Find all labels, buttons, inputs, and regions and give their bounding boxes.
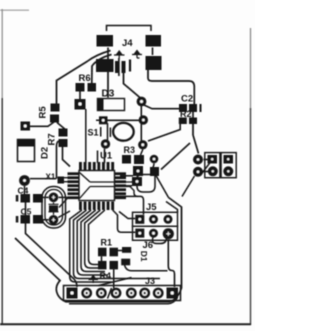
connector J3 pad 1 — [67, 288, 78, 299]
connector J2 outline A — [205, 153, 220, 178]
wire U1 left pin stubs — [64, 178, 68, 182]
via V2 — [141, 120, 143, 122]
capacitor C1 pad 1 — [98, 261, 107, 270]
capacitor C1 pad 2 — [110, 261, 119, 270]
connector J6 pad 3 — [163, 228, 174, 239]
wire C5 pad2 to X1 pad2 — [43, 219, 49, 221]
connector J4 silkscreen bracket — [107, 26, 152, 32]
wire U loop under J6 — [152, 238, 166, 244]
board outline bottom left diagonal — [15, 198, 182, 302]
resistor R5 pad 2 — [50, 115, 59, 123]
wire funnel exit up — [131, 175, 152, 183]
capacitor C5 pad 1 — [21, 215, 31, 224]
wire U1 to J6 feed — [113, 210, 136, 232]
transistor Q1 pad 3 — [150, 155, 159, 164]
resistor R6 pad 2 — [88, 83, 97, 92]
via V3 — [19, 175, 30, 186]
wire via V1 to C2 row — [144, 105, 179, 109]
wire J4 pin7 — [129, 60, 131, 72]
scan frame left border — [1, 9, 3, 100]
wire C1 pad2 to J3 — [113, 269, 115, 288]
diode D2 body — [18, 140, 35, 162]
wire J4 pad3 to D3 — [107, 57, 109, 98]
wire J4 pad4 to C2 column — [148, 70, 194, 104]
wire bundle U1 bottom 1 — [70, 210, 112, 282]
polarity mark C — [89, 275, 99, 284]
ic U1 right pins — [115, 172, 126, 199]
ic U1 body — [79, 171, 115, 201]
connector J4 pin 5 — [115, 61, 119, 73]
wire diagonal to J5 outline — [152, 169, 169, 198]
svg-text:S1: S1 — [88, 128, 99, 138]
pushbutton S1 pad TR — [139, 115, 148, 124]
capacitor C2 tick — [200, 104, 202, 112]
transistor Q1 pad 1 — [122, 155, 131, 164]
connector J4 pin 6 — [122, 61, 126, 73]
pushbutton S1 button circle — [113, 123, 134, 141]
wire R7 pad2 to C4 via rail — [57, 141, 59, 179]
wire J4 pin to via V1 — [118, 58, 120, 76]
wire bundle U1 bottom 6 — [89, 210, 105, 265]
crystal X1 pad 1 — [49, 193, 59, 203]
ic U1 left pins — [68, 172, 79, 199]
wire J2 row1 — [204, 159, 208, 161]
svg-text:J6: J6 — [143, 240, 154, 251]
transistor Q1 pad 2 — [134, 155, 144, 164]
transistor Q1 pad 5 — [150, 167, 159, 176]
svg-text:X1: X1 — [46, 173, 56, 182]
wire funnel exit down — [130, 187, 138, 197]
svg-text:R7: R7 — [47, 133, 58, 145]
wire R5 to pad P2 — [30, 122, 54, 126]
wire C4 to C5 — [25, 203, 27, 216]
resistor R1 pad 2 — [110, 248, 119, 257]
capacitor C4 tick — [16, 195, 18, 202]
crystal X1 symbol — [49, 202, 59, 214]
wire J3 diagonal — [108, 288, 112, 299]
connector J4 outline dash right — [152, 48, 154, 56]
connector J2 pad A2 — [208, 166, 218, 176]
connector J6 outline — [133, 226, 178, 240]
svg-text:D2: D2 — [40, 147, 51, 159]
connector J4 pad 1 — [97, 35, 114, 47]
connector J3 pad 4 — [111, 288, 122, 299]
connector J6 pad 1 — [135, 229, 144, 238]
svg-text:R6: R6 — [79, 73, 91, 84]
connector J2 pad B1 — [224, 155, 234, 164]
wire loop under Q1 — [137, 176, 155, 192]
wire J4 to R6 — [92, 55, 112, 84]
wire R2 to J2 pad1 — [193, 124, 199, 154]
wire U1 traces above — [86, 109, 108, 164]
svg-text:R3: R3 — [124, 145, 136, 155]
connector J3 pad 6 — [139, 288, 150, 299]
wire R1 pad2 to D1 — [118, 250, 122, 252]
resistor R6 pad 1 — [76, 83, 85, 92]
wire via V1 to S1 BR — [140, 105, 142, 142]
pad P2 — [21, 122, 31, 131]
capacitor C2 pad 2 — [189, 104, 197, 112]
scan frame bottom border — [0, 323, 251, 325]
connector J3 outline — [64, 286, 181, 301]
wire D1 down to J3 — [125, 265, 168, 271]
svg-text:D1: D1 — [139, 251, 149, 262]
connector J2 round pad 2 — [193, 167, 203, 177]
diode D3 cathode bar — [98, 99, 104, 110]
wire bundle U1 bottom 4 — [81, 210, 105, 272]
wire C2 to R2 — [192, 112, 194, 118]
connector J2 pad A1 — [208, 155, 218, 164]
svg-text:J3: J3 — [145, 276, 155, 286]
crystal X1 inner outline — [45, 190, 63, 226]
polarity mark B — [132, 50, 142, 59]
wire bundle U1 bottom 5 — [85, 210, 103, 268]
scan frame right border — [250, 28, 252, 110]
diode D1 pad 1 — [122, 247, 131, 253]
connector J4 outline dash left — [107, 48, 109, 58]
pushbutton S1 pad TL — [99, 116, 108, 124]
capacitor C5 tick — [16, 216, 18, 223]
ic U1 top pins — [79, 162, 114, 170]
connector J3 pad 8 — [167, 288, 179, 299]
connector J4 pad 2 — [146, 35, 162, 47]
wire under U1 funnel — [80, 173, 132, 199]
svg-text:C2: C2 — [181, 94, 193, 105]
wire U1 to Q1 loop top — [120, 175, 133, 177]
wire under J3 — [69, 298, 178, 304]
wire C5 down to outline — [26, 224, 78, 288]
wire J2 diagonal — [201, 162, 211, 175]
crystal X1 pad 2 — [49, 215, 59, 225]
pushbutton S1 pad BL — [101, 139, 110, 148]
diode D1 pad 2 — [121, 259, 130, 266]
wire J2 row2 — [204, 171, 209, 173]
wire U1 right to J5 pad1 — [115, 196, 144, 214]
connector J5 pad 1 — [135, 215, 144, 224]
wire S1 TL to TR — [108, 119, 140, 121]
svg-text:R4: R4 — [100, 271, 112, 281]
pushbutton S1 outline dash a — [100, 127, 102, 137]
svg-text:J5: J5 — [146, 202, 157, 213]
wire U1 to Q1 loop bottom — [120, 185, 132, 187]
connector J3 pad 3 — [96, 288, 107, 299]
resistor R1 pad 1 — [98, 248, 107, 257]
connector J3 pad 2 — [81, 288, 92, 299]
wire J6 pad3 down to J3 — [168, 240, 174, 288]
pushbutton S1 outline dash b — [96, 120, 110, 137]
connector J4 pad 4 — [146, 56, 162, 70]
connector J4 pad 3 — [96, 59, 114, 72]
svg-text:U1: U1 — [100, 151, 113, 162]
ic U1 bottom pins — [79, 202, 114, 211]
svg-text:J4: J4 — [122, 38, 133, 49]
svg-text:R1: R1 — [101, 238, 113, 248]
connector J3 pad 7 — [153, 288, 164, 299]
pushbutton S1 pad BR — [138, 140, 147, 149]
capacitor C4 pad 2 — [33, 194, 43, 203]
resistor R5 pad 1 — [51, 104, 60, 112]
wire J5 feed row1 — [119, 212, 135, 219]
crystal X1 outer outline — [42, 187, 66, 229]
wire R2 pad1 to S1 — [148, 124, 180, 141]
wire R7 to U1 — [63, 147, 71, 167]
polarity mark A — [114, 50, 125, 59]
diode D3 body — [98, 99, 125, 111]
pad P1 — [75, 99, 86, 110]
wire R1 to C1 — [101, 256, 103, 261]
wire bundle U1 bottom 3 — [77, 210, 108, 275]
transistor Q1 pad 4 — [133, 166, 143, 176]
wire X1 pad2 to U1 — [58, 211, 70, 218]
connector J5 outline — [133, 212, 178, 226]
svg-text:R5: R5 — [38, 106, 49, 119]
wire X1 pad1 to U1 — [59, 196, 68, 198]
capacitor C5 pad 2 — [33, 215, 43, 224]
capacitor C2 pad 1 — [179, 104, 187, 112]
connector J2 round pad 1 — [193, 155, 203, 165]
resistor R2 pad 1 — [179, 118, 187, 125]
connector J6 pad 2 — [149, 229, 158, 238]
board outline inner trace right — [166, 202, 178, 213]
diode D2 cathode bar — [18, 140, 34, 147]
wire U1 bottom left diagonal — [59, 198, 68, 208]
wire Q1 pad3 to pad5 — [151, 163, 155, 169]
connector J5 pad 2 — [149, 215, 158, 224]
pad P3 left of U1 — [58, 177, 65, 184]
wire bundle U1 bottom 2 — [74, 210, 161, 279]
resistor R7 pad 1 — [59, 129, 68, 137]
wire diagonal over J3 — [99, 278, 132, 286]
resistor R2 pad 2 — [189, 118, 197, 125]
wire C4 pad to X1 label — [30, 178, 56, 180]
wire J4 pin6 to via V1 — [124, 73, 142, 99]
connector J3 pad 5 — [126, 288, 137, 299]
wire C4 pad2 to X1 pad1 — [43, 196, 49, 198]
resistor R7 pad 2 — [59, 139, 68, 147]
wire R6 to pad P1 — [79, 92, 81, 100]
wire S1 BL down to U1 — [104, 149, 106, 163]
wire R5 to R7 — [57, 123, 66, 131]
scan frame top-left stub — [0, 9, 29, 11]
connector J2 pad B2 — [223, 166, 233, 176]
capacitor C4 pad 1 — [21, 194, 31, 203]
transistor Q1 pad 6 — [132, 177, 142, 186]
wire J4 to R5 — [57, 51, 111, 104]
connector J5 pad 3 — [164, 215, 173, 224]
via V1 — [137, 97, 147, 107]
wire S1 BR to Q1 pad2 — [141, 150, 143, 156]
wire corner to Q1 cluster — [161, 143, 190, 170]
connector J2 outline B — [221, 153, 236, 178]
wire J2 feed — [182, 176, 195, 197]
